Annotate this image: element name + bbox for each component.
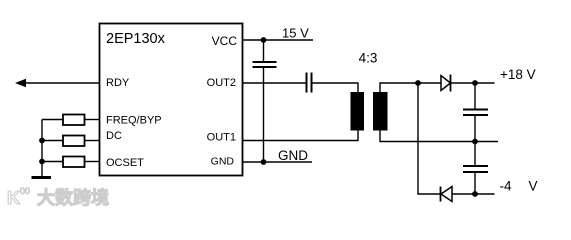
node secondary-top / negative-rail tee — [415, 80, 421, 86]
transformer T1 primary winding — [351, 92, 365, 131]
arrowhead RDY direction — [15, 79, 26, 87]
wire common stub — [475, 141, 498, 143]
svg-text:RDY: RDY — [106, 77, 130, 89]
watermark (decorative) — [7, 186, 109, 208]
resistor R1 — [63, 115, 85, 126]
resistor R2 — [63, 136, 85, 147]
svg-text:DC: DC — [106, 130, 122, 142]
wire FREQ/BYP pin to R1 — [85, 119, 100, 121]
wire OCSET pin to R3 — [85, 161, 100, 163]
wire VCC pin to 15V terminal — [243, 39, 313, 41]
wire secondary top to rail — [380, 83, 441, 93]
wire +18V node to terminal — [475, 82, 495, 84]
ground — [32, 176, 52, 179]
wire DC pin to R2 — [85, 140, 100, 142]
node +18V — [472, 80, 478, 86]
wire R1 to ground bus — [42, 119, 63, 121]
capacitor C3 (+18V filter) — [463, 83, 488, 142]
wire tee down to bottom rail and to D2 — [418, 83, 441, 194]
resistor R3 — [63, 157, 85, 168]
svg-text:K: K — [7, 188, 20, 207]
wire OUT2 pin to C2 — [243, 82, 306, 84]
wire RDY output — [20, 82, 99, 84]
svg-text:15 V: 15 V — [282, 26, 309, 41]
wire -4V node to terminal — [475, 193, 495, 195]
svg-text:00: 00 — [20, 186, 30, 196]
capacitor C1 (VCC decoupling) — [253, 40, 277, 67]
svg-text:FREQ/BYP: FREQ/BYP — [106, 115, 162, 127]
node VCC / C1 junction — [261, 37, 267, 43]
transformer T1 secondary winding — [373, 92, 388, 131]
svg-text:V: V — [529, 179, 538, 194]
svg-text:2EP130x: 2EP130x — [106, 31, 166, 47]
wire C1 to GND net — [263, 67, 265, 162]
node common 0V — [472, 139, 478, 145]
capacitor C2 (coupling) — [307, 73, 312, 93]
svg-text:大数跨境: 大数跨境 — [37, 187, 109, 207]
wire secondary bottom to common node — [380, 131, 475, 142]
node GND junction — [261, 159, 267, 165]
svg-text:OCSET: OCSET — [106, 157, 144, 169]
svg-text:OUT2: OUT2 — [207, 77, 236, 89]
node R2 bus junction — [39, 138, 45, 144]
svg-text:-4: -4 — [500, 179, 512, 194]
svg-text:4:3: 4:3 — [359, 51, 378, 66]
IC U1 body (2EP130x) — [100, 24, 243, 176]
wire D2 to -4V node — [452, 193, 475, 195]
wire ground bus vertical — [41, 120, 43, 177]
wire C2 to transformer primary top — [312, 83, 358, 93]
node -4V — [472, 191, 478, 197]
diode D2 — [441, 187, 453, 202]
diode D1 — [441, 75, 451, 92]
svg-text:GND: GND — [211, 156, 235, 168]
wire D1 to +18V node — [451, 82, 475, 84]
svg-text:GND: GND — [278, 148, 308, 163]
wire GND pin to GND net — [243, 161, 312, 163]
wire OUT1 pin to transformer primary bottom — [243, 131, 358, 141]
wire R3 to ground bus — [42, 161, 63, 163]
wire R2 to ground bus — [42, 140, 63, 142]
node R3 bus junction — [39, 159, 45, 165]
svg-text:VCC: VCC — [212, 34, 238, 48]
svg-text:OUT1: OUT1 — [207, 132, 236, 144]
svg-text:+18 V: +18 V — [500, 67, 536, 82]
capacitor C4 (-4V filter) — [463, 142, 488, 195]
